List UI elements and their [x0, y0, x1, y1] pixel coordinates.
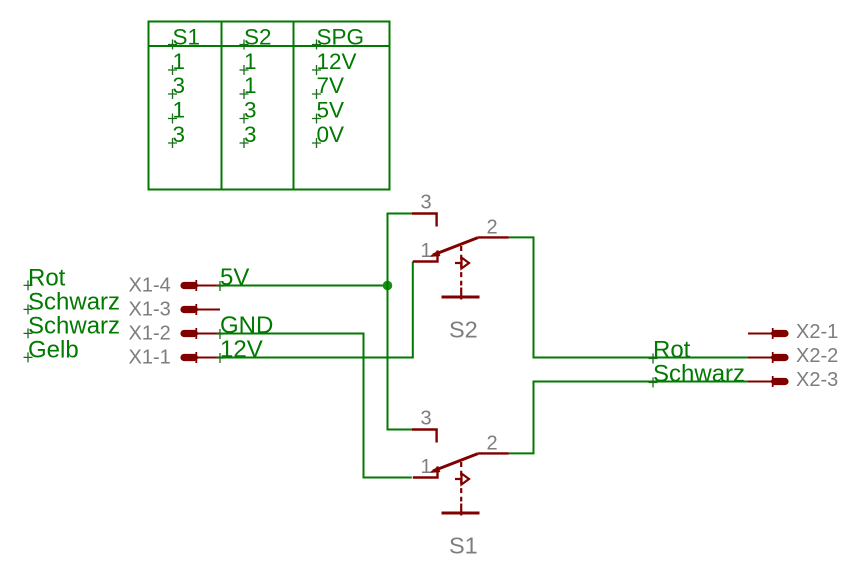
svg-text:X2-1: X2-1: [796, 321, 838, 343]
svg-text:12V: 12V: [220, 336, 263, 363]
S1 pin 2: [478, 452, 509, 454]
wire net 5V to S1 pin 3: [388, 286, 412, 430]
S1 actuator arrow: [455, 474, 469, 485]
svg-text:Schwarz: Schwarz: [653, 361, 745, 388]
svg-text:Rot: Rot: [28, 264, 66, 291]
svg-text:3: 3: [244, 98, 257, 123]
svg-text:7V: 7V: [317, 73, 345, 98]
svg-text:3: 3: [244, 122, 257, 147]
svg-text:1: 1: [244, 49, 257, 74]
wire net 5V to S2 pin 3: [388, 214, 412, 286]
connector X1 pin X1-1: [180, 352, 220, 363]
svg-text:GND: GND: [220, 312, 273, 339]
S1 actuator stem: [460, 504, 462, 516]
svg-text:3: 3: [421, 408, 432, 430]
S2 actuator bar: [442, 296, 480, 299]
S2 pin 2: [478, 236, 509, 238]
svg-text:Rot: Rot: [653, 337, 691, 364]
S2 actuator dashed link: [460, 246, 462, 286]
text origin crosses of wire name labels: [24, 280, 33, 362]
S2 actuator stem: [460, 288, 462, 300]
svg-text:12V: 12V: [317, 49, 357, 74]
svg-text:3: 3: [421, 192, 432, 214]
text origin crosses of net labels: [216, 281, 225, 363]
svg-text:S1: S1: [173, 25, 201, 50]
S2 pin 1: [413, 251, 438, 262]
connector X2 pin X2-1: [748, 328, 789, 339]
S1 pin 1: [413, 467, 438, 478]
connector X1 pin X1-4: [180, 280, 220, 291]
wire net Schwarz from S1 pin 2 to X2-3: [509, 382, 748, 454]
wire net 5V from X1-4: [220, 285, 388, 287]
svg-text:X1-3: X1-3: [129, 299, 171, 321]
svg-text:5V: 5V: [317, 98, 345, 123]
svg-text:2: 2: [487, 217, 498, 239]
S2 actuator arrow: [455, 258, 469, 269]
junction on net 5V: [383, 281, 393, 291]
svg-text:Gelb: Gelb: [28, 336, 79, 363]
S1 lever: [433, 454, 478, 471]
svg-text:1: 1: [421, 456, 432, 478]
S2 lever: [433, 238, 478, 255]
wire net 12V from X1-1 to S2 pin 1: [220, 262, 413, 358]
svg-text:0V: 0V: [317, 122, 345, 147]
svg-text:1: 1: [421, 240, 432, 262]
S2 lever arrowhead: [429, 250, 441, 257]
svg-text:X1-4: X1-4: [129, 275, 171, 297]
svg-text:S2: S2: [244, 25, 272, 50]
svg-text:X2-2: X2-2: [796, 345, 838, 367]
svg-text:S1: S1: [449, 533, 478, 559]
S1 actuator bar: [442, 512, 480, 515]
S1 pin 3: [412, 430, 437, 443]
connector X2 pin X2-3: [748, 376, 789, 387]
connector X1 pin X1-2: [180, 328, 220, 339]
switch S2: [412, 192, 509, 343]
svg-text:1: 1: [173, 49, 186, 74]
svg-text:S2: S2: [449, 317, 478, 343]
svg-text:1: 1: [173, 98, 186, 123]
text origin crosses of table texts: [168, 40, 321, 149]
svg-text:SPG: SPG: [317, 25, 365, 50]
svg-text:5V: 5V: [220, 264, 249, 291]
svg-text:2: 2: [487, 433, 498, 455]
S1 lever arrowhead: [429, 466, 441, 473]
svg-text:Schwarz: Schwarz: [28, 288, 120, 315]
S2 pin 3: [412, 214, 437, 227]
wire net GND from X1-2 to S1 pin 1: [220, 334, 412, 478]
svg-text:X1-1: X1-1: [129, 347, 171, 369]
wire net Rot from S2 pin 2 to X2-2: [509, 237, 748, 357]
svg-text:3: 3: [173, 122, 186, 147]
switch S1: [412, 408, 509, 559]
svg-text:3: 3: [173, 73, 186, 98]
table header labels S1 S2 SPG: [173, 25, 365, 50]
svg-text:1: 1: [244, 73, 257, 98]
connector X2 pin X2-2: [748, 352, 789, 363]
S1 actuator dashed link: [460, 462, 462, 502]
table value cells: [173, 49, 357, 147]
svg-text:X1-2: X1-2: [129, 323, 171, 345]
truth table frame: [149, 22, 390, 190]
svg-text:Schwarz: Schwarz: [28, 312, 120, 339]
svg-text:X2-3: X2-3: [796, 369, 838, 391]
connector X1 pin X1-3: [180, 304, 220, 315]
text origin crosses of right net labels: [649, 354, 658, 388]
